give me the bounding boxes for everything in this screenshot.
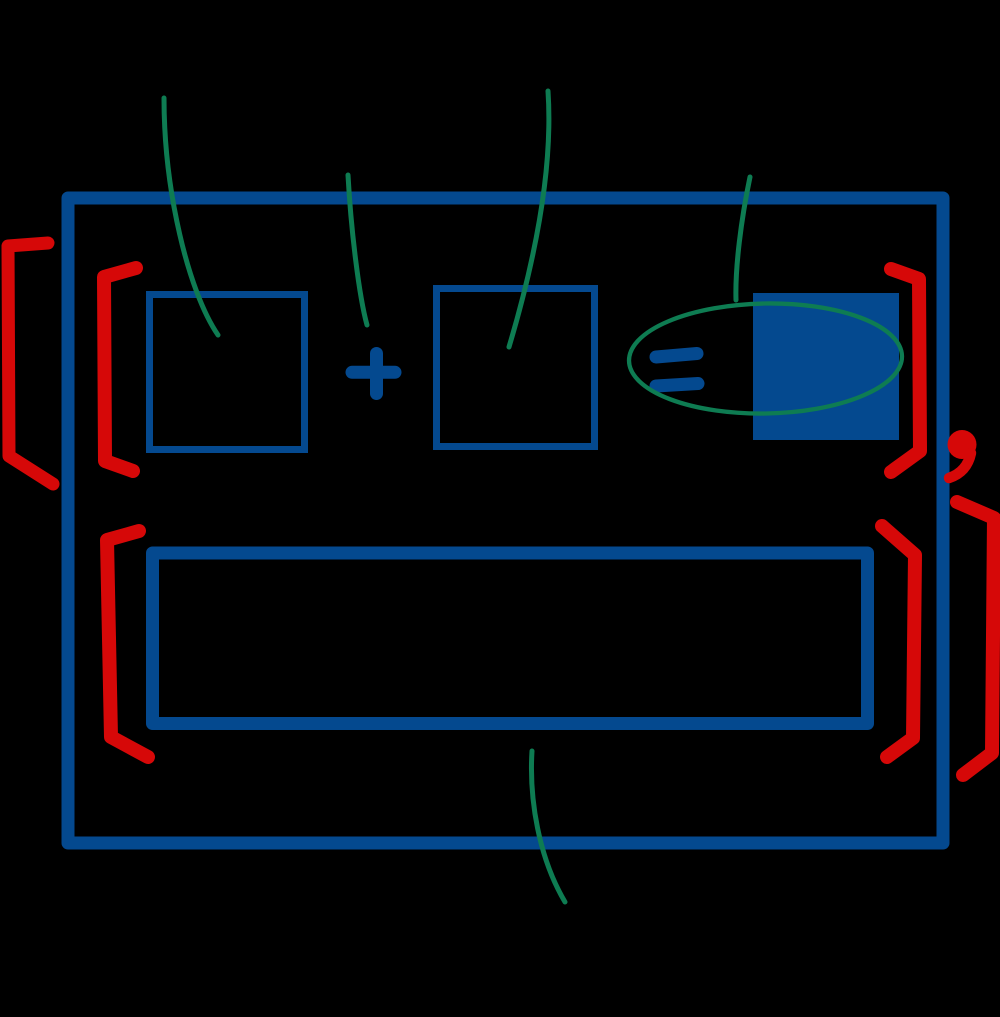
plus sign horizontal bar <box>352 366 395 379</box>
green leader line 1 to square 1 <box>164 98 218 335</box>
plus sign vertical bar <box>370 354 383 394</box>
red comma separator <box>948 430 977 478</box>
equals sign bottom bar <box>656 384 698 387</box>
equals sign top bar <box>656 354 697 358</box>
green leader line 3 to square 2 <box>509 91 549 347</box>
green leader line 4 to ellipse <box>736 177 750 300</box>
row1 square 2 outline <box>437 289 595 447</box>
row2 long rectangle outline <box>153 553 868 724</box>
green leader line 2 to plus sign <box>348 175 367 325</box>
row2 right red bracket ] <box>882 526 915 757</box>
row1 right red bracket ] <box>891 269 920 472</box>
row1 left red bracket [ <box>104 268 136 471</box>
row1 square 1 outline <box>150 295 305 450</box>
green ellipse around equals and filled square <box>628 301 903 416</box>
outer right red bracket ] <box>957 502 994 775</box>
outer container rounded rectangle <box>68 198 943 843</box>
green leader line 5 below container <box>531 751 565 902</box>
row2 left red bracket [ <box>107 531 148 757</box>
outer left red bracket [ <box>8 243 53 484</box>
filled blue square <box>753 293 899 440</box>
